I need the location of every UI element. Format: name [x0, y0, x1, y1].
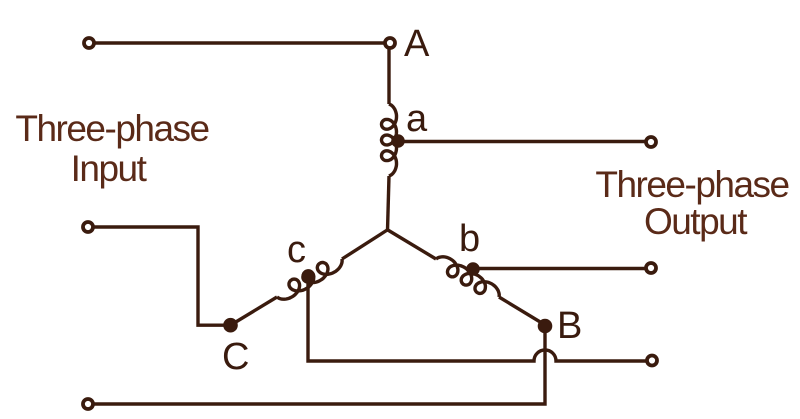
svg-text:a: a: [406, 98, 428, 140]
label three-phase input: [15, 108, 208, 189]
winding c (phase C coil): [277, 259, 342, 299]
terminal input phase 3 (bottom left): [83, 399, 93, 409]
wire winding b to node B: [499, 297, 546, 326]
wire node A down to winding a: [387, 48, 390, 105]
junction tap a: [391, 134, 405, 148]
terminal input phase 2 (middle left): [83, 222, 93, 232]
wire node C left and up to input terminal 2: [93, 227, 233, 325]
junction tap b: [466, 262, 480, 276]
label a: [406, 98, 428, 140]
svg-text:C: C: [222, 336, 249, 378]
svg-text:b: b: [459, 218, 480, 260]
wire top input line to node A: [94, 41, 386, 44]
terminal output phase 2 (from tap b): [646, 263, 656, 273]
wire winding a to star point: [388, 176, 390, 231]
label c: [287, 229, 306, 271]
winding b (phase B coil): [436, 257, 499, 297]
wire winding c to node C: [230, 297, 277, 326]
label three-phase output: [595, 164, 788, 242]
wire star point to winding b (right diagonal): [387, 230, 436, 260]
winding a (phase A coil): [382, 104, 397, 176]
terminal output phase 3 (from tap c): [647, 356, 657, 366]
wire tap b to output terminal 2: [473, 267, 647, 270]
terminal input phase 1 (top left): [84, 38, 94, 48]
svg-text:A: A: [404, 23, 430, 65]
wire star point to winding c (left diagonal): [342, 230, 388, 260]
svg-text:Three-phase: Three-phase: [15, 108, 208, 149]
svg-text:Output: Output: [644, 201, 748, 242]
junction node C: [223, 318, 238, 333]
svg-text:Three-phase: Three-phase: [595, 164, 788, 205]
terminal output phase 1 (from tap a): [646, 137, 656, 147]
svg-text:B: B: [557, 305, 582, 347]
label b: [459, 218, 480, 260]
svg-text:Input: Input: [71, 148, 148, 189]
label C: [222, 336, 249, 378]
wire node B down to bottom rail and left to input terminal 3: [93, 326, 546, 404]
svg-text:c: c: [287, 229, 306, 271]
terminal node A: [385, 38, 395, 48]
junction node B: [538, 319, 553, 334]
label B: [557, 305, 582, 347]
junction tap c: [301, 270, 315, 284]
wire tap a to output terminal 1: [398, 140, 647, 143]
wire tap c down then right with hop over B wire to output terminal 3: [308, 277, 648, 361]
label A: [404, 23, 430, 65]
